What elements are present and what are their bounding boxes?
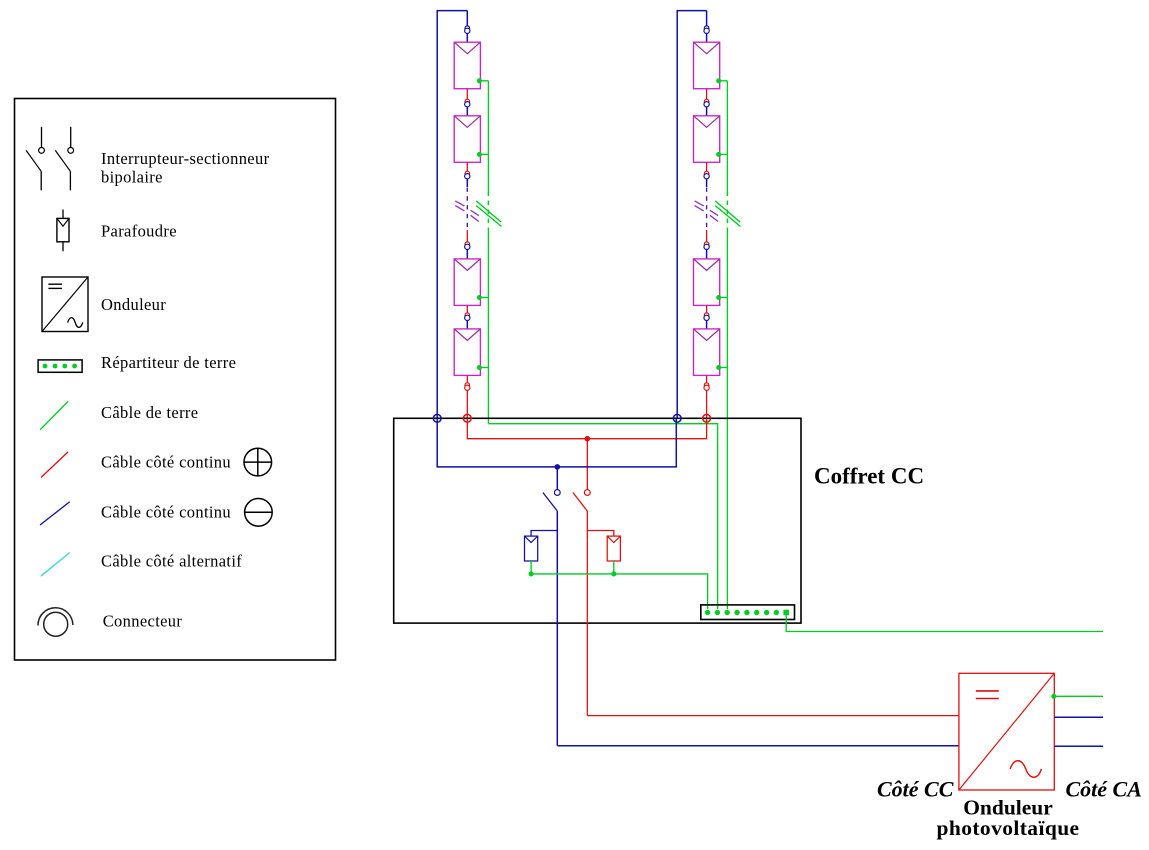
string B module 2 earth dot [716, 152, 721, 157]
svg-text:Câble côté alternatif: Câble côté alternatif [101, 552, 242, 571]
string B earth cable upper segment [726, 81, 728, 192]
string A connector CN4 [465, 242, 470, 250]
string A wire module4+ down [466, 375, 468, 383]
legend cable continu plus sample [41, 452, 68, 478]
string A wire below connector CN3 [466, 179, 468, 187]
string B module 3 earth dot [716, 295, 721, 300]
svg-text:Parafoudre: Parafoudre [101, 222, 177, 241]
PV module B4 [694, 329, 720, 376]
string B connector CN6 (positive pair) [704, 383, 709, 391]
PV module A4 [454, 329, 480, 376]
legend repartiteur de terre symbol [38, 360, 82, 372]
AC cable neutral out [1054, 745, 1103, 747]
string A wire connector to module 3 [466, 250, 468, 259]
positive cable coffret to onduleur [587, 715, 959, 717]
string B wire below connector CN3 [706, 179, 708, 187]
string B wire connector to module 1 [706, 34, 708, 43]
negative bus bar [437, 418, 676, 467]
string A dashed continuation (modules omitted) [466, 188, 468, 230]
string A earth cable lower segment [487, 229, 489, 424]
string B wire top to connector [706, 11, 708, 27]
string B positive wire to coffret [706, 391, 708, 419]
legend switch pole 2 wire top [70, 127, 72, 148]
legend parafoudre symbol [57, 210, 69, 252]
string A wire module1+ to connector [466, 89, 468, 100]
switch Q1 negative pole blade [543, 493, 557, 512]
string B dashed continuation (modules omitted) [706, 188, 708, 230]
svg-text:photovoltaïque: photovoltaïque [937, 816, 1080, 840]
legend switch pole 2 contact circle [68, 148, 74, 154]
repartiteur de terre block [701, 605, 795, 620]
string B connector CN2 [704, 99, 709, 107]
PV module A1 [454, 42, 480, 88]
string A connector CN1 (top) [465, 26, 470, 34]
string B connector CN1 (top) [704, 26, 709, 34]
string B module 4 earth stub [719, 367, 728, 369]
legend switch pole 1 blade [26, 150, 41, 171]
string B module 1 earth dot [716, 78, 721, 83]
legend minus symbol [245, 499, 273, 527]
coffret input connector string A negative [433, 414, 441, 422]
string B module 1 earth stub [719, 80, 728, 82]
string B wire above connector CN4 [706, 230, 708, 243]
parafoudre F2 earth lead [613, 561, 615, 572]
string B connector CN5 [704, 313, 709, 321]
string A wire top to connector [466, 11, 468, 27]
legend cable cote alternatif sample [41, 553, 70, 576]
PV module A3 [454, 259, 480, 306]
string A module 2 earth dot [477, 152, 482, 157]
string B connector CN4 [704, 242, 709, 250]
PV module B1 [694, 42, 720, 88]
string B earth cable dashed continuation [726, 192, 728, 230]
svg-text:Onduleur: Onduleur [101, 295, 166, 314]
string B module 3 earth stub [719, 297, 728, 299]
string B module 2 earth stub [719, 153, 728, 155]
svg-text:Côté CA: Côté CA [1066, 777, 1142, 802]
string A wire connector to module 4 [466, 321, 468, 329]
svg-text:Interrupteur-sectionneur: Interrupteur-sectionneur [101, 149, 270, 168]
string A wire connector to module 1 [466, 34, 468, 43]
positive bus junction [585, 436, 591, 442]
legend switch pole 1 contact circle [39, 148, 45, 154]
positive wire switch to corner [586, 511, 588, 716]
string A connector CN6 (positive pair) [465, 383, 470, 391]
string A earth cable upper segment [487, 81, 489, 192]
earth cable onduleur out [1054, 695, 1103, 697]
AC cable phase out [1054, 716, 1103, 718]
string A wire connector to module 2 [466, 107, 468, 116]
string B wire connector to module 3 [706, 250, 708, 259]
string B module 4 earth dot [716, 365, 721, 370]
repartiteur terminals [705, 610, 789, 616]
string A module 4 earth dot [477, 365, 482, 370]
parafoudre F2 earth node [611, 571, 616, 576]
string A earth cable break slashes [476, 201, 501, 227]
string B earth cable lower segment to repartiteur [726, 229, 728, 609]
svg-text:Câble côté continu: Câble côté continu [101, 503, 231, 522]
string B wire module3+ to connector [706, 305, 708, 313]
positive bus bar [467, 418, 706, 438]
branch to parafoudre F2 (positive) [587, 531, 614, 537]
legend switch pole 1 wire top [41, 127, 43, 148]
earth link string A to repartiteur [488, 424, 717, 609]
string A wire above connector CN4 [466, 230, 468, 243]
onduleur earth terminal [1051, 694, 1056, 699]
negative cable coffret to onduleur [557, 745, 959, 747]
string A wire module3+ to connector [466, 305, 468, 313]
string A module 3 earth stub [479, 297, 488, 299]
parafoudre F2 (positive side) [607, 536, 620, 561]
parafoudre F1 (negative side) [525, 536, 538, 561]
svg-text:Câble côté continu: Câble côté continu [101, 453, 231, 472]
svg-text:Côté CC: Côté CC [877, 777, 954, 802]
negative bus junction [555, 464, 561, 470]
legend cable continu minus sample [40, 502, 70, 525]
parafoudre F1 earth lead [530, 561, 532, 572]
string A module 4 earth stub [479, 367, 488, 369]
main earth cable out of coffret [786, 615, 1103, 631]
negative wire switch to corner [556, 511, 558, 746]
legend switch pole 2 wire bottom [69, 171, 71, 190]
coffret input connector string A positive [463, 414, 471, 422]
svg-text:Câble de terre: Câble de terre [101, 403, 198, 422]
string A connector CN2 [465, 99, 470, 107]
PV module B2 [694, 116, 720, 163]
string A module 1 earth stub [479, 80, 488, 82]
string B wire connector to module 4 [706, 321, 708, 329]
legend frame [15, 99, 336, 661]
coffret input connector string B positive [703, 414, 711, 422]
branch to parafoudre F1 (negative) [531, 531, 557, 537]
earth bus parafoudres to repartiteur [531, 574, 708, 609]
legend switch pole 2 blade [55, 150, 70, 171]
positive bus drop to switch [586, 439, 588, 490]
svg-text:Connecteur: Connecteur [103, 612, 183, 631]
string B earth cable break slashes [715, 201, 740, 227]
PV module A2 [454, 116, 480, 163]
coffret CC enclosure box [394, 418, 801, 623]
string A module 1 earth dot [477, 78, 482, 83]
string B wire module4+ down [706, 375, 708, 383]
string A module 2 earth stub [479, 153, 488, 155]
string B wire connector to module 2 [706, 107, 708, 116]
switch Q1 positive pole contact [584, 490, 590, 496]
svg-text:Coffret CC: Coffret CC [814, 464, 924, 489]
coffret input connector string B negative [673, 414, 681, 422]
string B wire module1+ to connector [706, 89, 708, 100]
legend plus symbol [244, 448, 272, 476]
parafoudre F1 earth node [529, 571, 534, 576]
legend cable de terre sample [40, 401, 68, 429]
string A connector CN5 [465, 313, 470, 321]
string B negative return wire (top + left vertical) [677, 11, 706, 419]
string B break mark slashes [695, 201, 719, 222]
string A earth cable dashed continuation [487, 192, 489, 230]
string A positive wire to coffret [466, 391, 468, 419]
onduleur photovoltaique U1 [959, 673, 1054, 790]
legend connecteur symbol [38, 608, 73, 636]
svg-text:bipolaire: bipolaire [101, 168, 163, 187]
legend switch pole 1 wire bottom [40, 171, 42, 190]
string A negative return wire (top + left vertical) [437, 11, 467, 419]
negative bus drop to switch [556, 467, 558, 490]
legend onduleur symbol [42, 277, 88, 332]
switch Q1 negative pole contact [554, 490, 560, 496]
string A connector CN3 [465, 171, 470, 179]
string A break mark slashes [455, 201, 479, 222]
switch Q1 positive pole blade [573, 493, 587, 512]
string A wire module2+ to connector [466, 162, 468, 172]
string B connector CN3 [704, 171, 709, 179]
svg-text:Répartiteur de terre: Répartiteur de terre [101, 353, 236, 372]
string A module 3 earth dot [477, 295, 482, 300]
string B wire module2+ to connector [706, 162, 708, 172]
PV module B3 [694, 259, 720, 306]
